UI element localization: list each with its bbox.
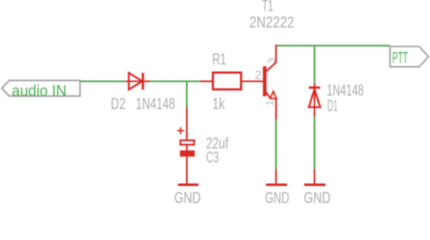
svg-text:C3: C3 — [206, 148, 219, 166]
svg-text:1: 1 — [265, 100, 276, 106]
svg-text:T1: T1 — [262, 0, 273, 14]
svg-text:1N4148: 1N4148 — [136, 94, 175, 113]
svg-text:GND: GND — [304, 188, 331, 204]
svg-text:1k: 1k — [212, 94, 225, 112]
svg-text:D1: D1 — [327, 96, 338, 115]
svg-text:GND: GND — [174, 188, 201, 204]
svg-text:3: 3 — [267, 57, 278, 63]
svg-text:R1: R1 — [212, 51, 226, 68]
svg-text:2N2222: 2N2222 — [249, 14, 294, 32]
svg-text:D2: D2 — [111, 94, 126, 112]
svg-text:audio IN: audio IN — [12, 82, 67, 99]
svg-text:PTT: PTT — [392, 48, 408, 67]
svg-text:GND: GND — [265, 189, 289, 204]
svg-text:2: 2 — [255, 68, 262, 82]
